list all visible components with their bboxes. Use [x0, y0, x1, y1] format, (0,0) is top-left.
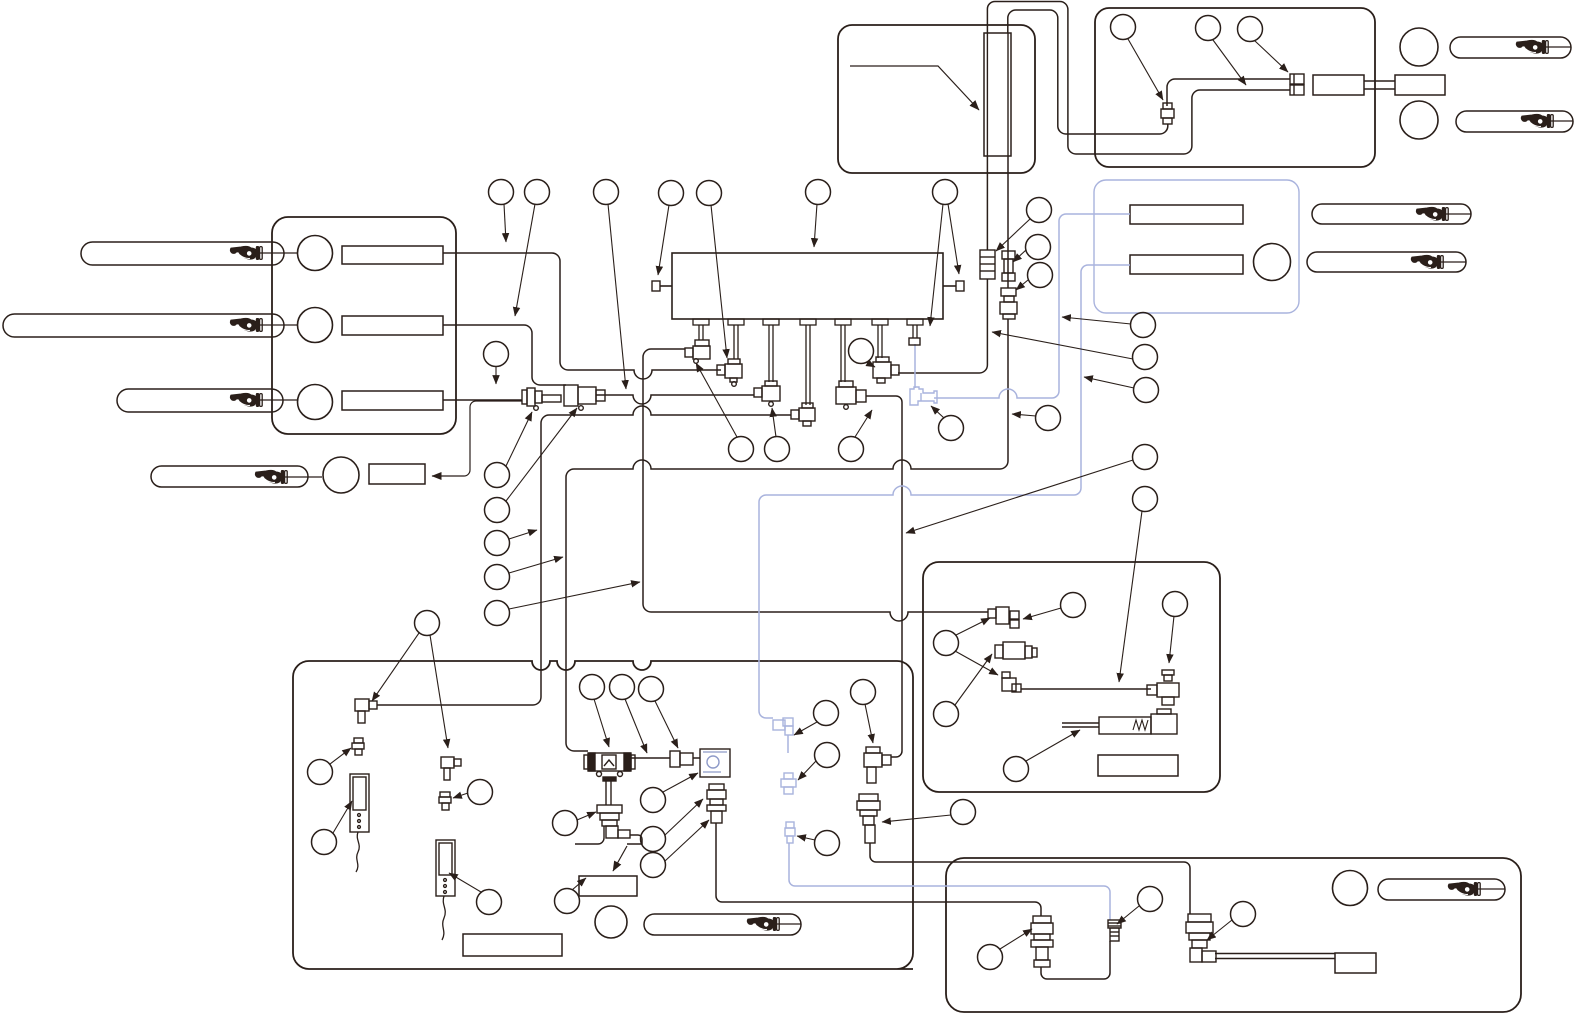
leader 27 [906, 460, 1133, 533]
callout circle 39 [610, 675, 635, 700]
callout circle 41 [553, 811, 578, 836]
callout circle 16 [765, 437, 790, 462]
leader 35 [955, 654, 992, 705]
leader 24 [1062, 317, 1131, 324]
pill label P9 bottom [644, 914, 801, 935]
leader 18 [866, 362, 875, 367]
hand icon in P7 [1416, 207, 1448, 221]
tee check valve assembly [588, 753, 631, 771]
coupling G3 + elbow [1188, 914, 1211, 922]
leader 49 [882, 815, 951, 822]
fitting E2 [995, 645, 1003, 658]
blue wire D2 long run to blue elbow F [759, 265, 1130, 718]
fitting F7 tiny [909, 338, 920, 345]
callout circle 49 [951, 800, 976, 825]
label rect F1 [579, 876, 637, 896]
callout circle 3 [594, 180, 619, 205]
leader 25 [992, 332, 1133, 359]
callout circle 32 [1061, 593, 1086, 618]
blue wire port7 down [914, 344, 916, 388]
leader 21 [996, 219, 1030, 251]
callout circle 31 [1238, 17, 1263, 42]
callout circle 52 [468, 780, 493, 805]
leader 38 [594, 699, 609, 747]
leader 29 [1128, 39, 1163, 100]
leader 13 [509, 582, 640, 609]
callout circle 15 [729, 437, 754, 462]
leader 44 [665, 820, 709, 861]
union u1 [980, 250, 995, 279]
manifold body [672, 253, 943, 319]
enclosure box B top-right [1095, 8, 1375, 167]
label rect near P4 [369, 464, 425, 484]
item circle in box D [1254, 244, 1291, 281]
callout circle 53 [477, 890, 502, 915]
leader 12 [509, 557, 563, 573]
callout circle 7 [933, 180, 958, 205]
wire r1 to F2 [443, 253, 721, 379]
label rect C2 [342, 316, 443, 335]
callout circle 48 [851, 680, 876, 705]
manifold port 3 [763, 319, 779, 325]
leader 36 [1026, 730, 1080, 761]
pill label P8 mid-right [1307, 252, 1466, 272]
callout circle 4 [659, 181, 684, 206]
fitting E1 [988, 609, 996, 618]
leader 2 [515, 204, 535, 316]
wire tall-rect right tube down to y469 run [566, 156, 1008, 751]
coupling Fg [597, 805, 622, 813]
leader 7b [948, 204, 959, 274]
hand icon in P1 [230, 246, 262, 260]
leader 14a [372, 633, 419, 701]
blue stub below elbow [787, 735, 789, 753]
wire coupling to label rect P4 [432, 401, 522, 476]
manifold port 5 [835, 319, 851, 325]
item circle C-row2 [298, 308, 333, 343]
leader 42 [663, 773, 698, 792]
callout circle 12 [485, 565, 510, 590]
callout circle 36 [1004, 757, 1029, 782]
wire Fg left drain [575, 826, 604, 844]
enclosure box F bottom-left (top edge has wire bumps) [293, 661, 913, 969]
label rect F2 [463, 934, 562, 956]
callout circle 43 [641, 827, 666, 852]
hand icon in P6 [1521, 114, 1553, 128]
wire r2 to coupling [443, 325, 566, 385]
regulator Fi [700, 749, 730, 777]
enclosure box G bottom-right [946, 858, 1521, 1012]
callout circle 5 [697, 181, 722, 206]
leader 22 [1013, 250, 1026, 262]
leader 20 [1012, 414, 1036, 416]
enclosure box C left [272, 217, 456, 434]
leader 48 [865, 704, 873, 743]
hand icon in P9 [747, 917, 779, 931]
leader 19 [931, 406, 944, 418]
blue elbow in box F [773, 720, 785, 730]
coupling socket [564, 385, 578, 406]
callout circle 46 [815, 743, 840, 768]
label rect C1 [342, 246, 443, 264]
leader 50 [330, 748, 351, 764]
wire F1 down to E1 [643, 349, 988, 621]
callout circle 33 [1163, 592, 1188, 617]
label rect E [1098, 755, 1178, 776]
callout circle 17 [839, 437, 864, 462]
fitting Fh [670, 751, 680, 767]
pill label P4 [151, 466, 308, 487]
callout circle 42 [641, 788, 666, 813]
callout circle 47 [815, 831, 840, 856]
manifold port 4 [800, 319, 816, 325]
item circle near P4 [323, 457, 359, 493]
fitting bfit in box B [1163, 103, 1172, 109]
union u3 [1001, 288, 1016, 296]
leader 3 [608, 204, 626, 389]
leader 14b [430, 635, 448, 748]
fitting Fe [440, 792, 450, 797]
leader 55 [1000, 929, 1032, 949]
leader 52 [453, 793, 468, 798]
wire Fj down to G1 [716, 823, 1041, 916]
manifold port 7 [907, 319, 923, 325]
manifold port 6 [872, 319, 888, 325]
valve E4 [1162, 670, 1174, 675]
cylinder assembly [1062, 722, 1099, 724]
item circle C-row1 [298, 236, 333, 271]
wire F4 to elbow Fa [377, 406, 791, 705]
callout circle 23 [1028, 263, 1053, 288]
fitting F4 elbow [802, 403, 813, 408]
enclosure box E middle-right [923, 562, 1220, 792]
blue valve 1 [784, 773, 793, 779]
hand icon in P4 [255, 470, 287, 484]
callout circle 51 [312, 830, 337, 855]
relay rect top1 [1313, 75, 1364, 95]
callout circle 40 [639, 677, 664, 702]
fitting G2 [1108, 920, 1121, 928]
hand icon in P8 [1411, 255, 1443, 269]
elbow below Fg [606, 826, 618, 838]
callout circle 34 [934, 631, 959, 656]
coupling Fj [709, 784, 724, 790]
callout circle 10 [485, 498, 510, 523]
label rect C3 [342, 391, 443, 410]
wire tee to Fh [631, 757, 700, 759]
label rect D2 [1130, 255, 1243, 274]
callout circle 22 [1026, 235, 1051, 260]
tall rect in box A [984, 33, 1011, 156]
callout circle 11 [485, 531, 510, 556]
leader 8 [495, 366, 497, 384]
callout circle 26 [1134, 378, 1159, 403]
leader 28 [1119, 511, 1142, 682]
callout circle 54 [555, 889, 580, 914]
elbow Fk [866, 747, 880, 753]
wire coupling to F3 [596, 395, 754, 404]
leader 10 [506, 408, 577, 501]
callout circle 27 [1133, 445, 1158, 470]
hand icon in P2 [230, 318, 262, 332]
coupling G1 [1033, 916, 1051, 923]
label rect D1 [1130, 205, 1243, 224]
fitting F1 elbow [695, 340, 709, 346]
item circle near P9 [595, 906, 627, 938]
callout circle 18 [849, 339, 874, 364]
relay link lines [1364, 80, 1395, 82]
leader 56 [1117, 906, 1139, 924]
callout circle 6 [806, 180, 831, 205]
item circle near P6 [1400, 101, 1438, 139]
leader 32 [1023, 608, 1061, 619]
callout circle 9 [485, 463, 510, 488]
wire tall-rect right tube up over to relay [1008, 10, 1290, 134]
hand icon in P3 [230, 393, 262, 407]
leader 33 [1169, 616, 1174, 663]
leader 39 [625, 699, 647, 753]
leader 1 [504, 204, 506, 242]
leader 31 [1255, 41, 1288, 72]
item circle near P10 [1333, 871, 1368, 906]
leader 6 [814, 204, 817, 247]
leader 7a [930, 204, 943, 326]
callout circle 30 [1196, 16, 1221, 41]
callout circle 20 [1036, 406, 1061, 431]
callout circle 19 [939, 416, 964, 441]
leader 15 [696, 363, 737, 437]
callout circle 25 [1133, 345, 1158, 370]
callout circle 2 [525, 180, 550, 205]
leader 46 [798, 761, 816, 780]
pill label P5 top-right [1450, 37, 1571, 58]
pill label P2 [3, 314, 284, 337]
blue elbow near manifold [910, 387, 937, 405]
wire tee elbow drain [627, 835, 642, 844]
leader 11 [509, 530, 537, 539]
callout circle 38 [580, 675, 605, 700]
fitting E3 [1002, 672, 1010, 678]
callout circle 45 [814, 701, 839, 726]
wire G1 bottom to G2 bottom [1041, 941, 1110, 979]
blue wire D1 to blue elbow [934, 214, 1130, 398]
union u2 [1002, 251, 1015, 259]
sensor Fd [350, 774, 369, 832]
fitting F5 elbow [839, 381, 853, 387]
pill label P7 mid-right [1312, 204, 1471, 224]
connector rect G [1335, 953, 1376, 973]
pill label P10 in box G [1378, 879, 1505, 900]
pill label P6 top-right [1456, 111, 1573, 132]
wire Fl over to G3 [870, 843, 1190, 914]
callout circle 1 [489, 180, 514, 205]
fitting F3 elbow [765, 381, 777, 386]
callout circle 28 [1133, 487, 1158, 512]
leader 51 [333, 801, 352, 833]
manifold left tab [660, 285, 672, 287]
item circle C-row3 [298, 385, 333, 420]
callout circle 57 [1231, 902, 1256, 927]
wire box A internal leader [850, 66, 979, 110]
callout circle 44 [641, 853, 666, 878]
leader 23 [1016, 280, 1028, 290]
hand icon in P5 [1516, 40, 1548, 54]
callout circle 29 [1111, 15, 1136, 40]
callout circle 8 [484, 342, 509, 367]
enclosure box A top-left [838, 25, 1035, 173]
wire F5 down to Fk [866, 396, 902, 757]
leader 54 [572, 878, 586, 890]
pill label P1 [81, 242, 284, 265]
leader 30 [1213, 40, 1246, 85]
wire tall-rect left tube down to F6 [898, 156, 987, 373]
fitting f2 [1290, 85, 1304, 95]
wire r3 to plug [443, 399, 522, 401]
blue valve 2 [786, 822, 794, 828]
manifold port 2 [728, 319, 744, 325]
callout circle 35 [934, 702, 959, 727]
manifold port 1 [693, 319, 709, 325]
callout circle 21 [1027, 198, 1052, 223]
pill label P3 [117, 389, 283, 412]
leader 45 [794, 722, 817, 735]
leader 9 [506, 412, 532, 466]
hand icon in P10 [1448, 882, 1480, 896]
leader 40 [655, 701, 678, 748]
leader 47 [797, 836, 815, 840]
blue wire valve to G2 [789, 843, 1110, 920]
fitting F6 tee [876, 357, 889, 362]
callout circle 55 [978, 945, 1003, 970]
callout circle 14 [415, 611, 440, 636]
relay rect top2 [1395, 75, 1445, 95]
callout circle 13 [485, 601, 510, 626]
coupling plug [522, 390, 527, 404]
leader 5 [711, 205, 727, 358]
enclosure box D (blue) [1094, 180, 1299, 313]
callout circle 56 [1138, 887, 1163, 912]
leader 57 [1207, 920, 1232, 940]
leader 34b [955, 651, 998, 675]
leader 16 [772, 408, 776, 437]
wire G3 elbow to connector [1215, 954, 1335, 959]
fitting Fb elbow [441, 757, 454, 768]
leader 53 [449, 873, 481, 892]
leader 17 [855, 410, 872, 437]
fitting F2 tee [728, 359, 740, 364]
sensor Ff [436, 840, 455, 896]
coupling Fl [859, 794, 878, 801]
manifold right tab [943, 285, 956, 287]
leader 4 [658, 205, 669, 275]
fitting Fc [354, 738, 363, 743]
leader 34a [956, 618, 990, 635]
leader 43 [665, 799, 703, 835]
fitting Fa elbow [355, 699, 369, 711]
leader 26 [1084, 377, 1134, 388]
fitting f1 [1290, 74, 1304, 84]
item circle near P5 [1400, 28, 1438, 66]
leader 41 [577, 812, 596, 820]
wire E3 to E4 [1021, 688, 1151, 690]
wire tall-rect left tube up over to relay [987, 2, 1290, 155]
drain arrow into label [613, 846, 627, 871]
callout circle 24 [1131, 313, 1156, 338]
callout circle 50 [308, 760, 333, 785]
